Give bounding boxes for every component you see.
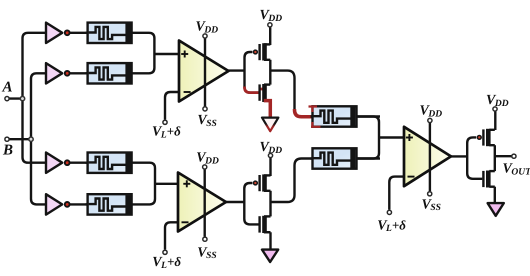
wire: op-amp U2 VDD/VSS rail [203,170,205,237]
ground stage 2 (pink) [262,250,278,262]
stage 3 VDD drop wire [494,112,496,131]
wire: op-amp U1 + input [154,53,180,55]
stage 1 NMOS source red wire [264,101,271,117]
svg-text:VL+δ: VL+δ [152,254,181,271]
ground stage 3 (pink) [488,203,504,216]
stage 2 CMOS gate bus [244,183,258,224]
terminal VDD U1 [203,34,207,38]
memristor M6 [311,148,357,168]
stage 1 VDD drop wire [269,27,271,45]
stage 2 VDD drop wire [269,158,271,176]
transistor Q2 NMOS stage 1 [260,84,271,102]
memristor M1 [86,23,132,43]
wire: op-amp U3 output [449,155,468,157]
wire: op-amp U1 - input to VL [165,92,180,120]
terminal VSS U2 [203,237,207,241]
stage 1 output wire to memristor M5 [270,71,294,110]
wire: top summing bus (mem1+mem2 outputs) [130,33,154,74]
ground stage 1 (red) [262,118,278,132]
inverter G1 [46,23,88,43]
stage 2 NMOS source wire [264,232,271,250]
terminal VOUT [512,154,516,158]
wire: bottom summing bus (mem3+mem4 outputs) [130,163,155,205]
terminal VDD U2 [203,165,207,169]
svg-text:VL+δ: VL+δ [377,217,406,234]
svg-text:A: A [1,80,12,96]
wire: op-amp U2 - input to VL [165,222,179,249]
wire: memristor M6 output [355,157,380,159]
svg-text:VL+δ: VL+δ [152,124,181,141]
terminal VDD stage2 [268,153,272,157]
transistor Q5 PMOS stage 3 [477,129,494,146]
stage 1 red gate highlight [245,87,267,93]
terminal VL U1 [163,120,167,124]
stage 3 NMOS source wire [494,187,496,204]
wire: input A lead [7,97,24,99]
memristor M2 [86,63,132,83]
svg-text:B: B [2,143,13,159]
transistor Q4 NMOS stage 2 [260,216,271,233]
wire: middle summing bus [356,117,379,159]
terminal VL U3 [387,210,391,214]
wire: op-amp U2 + input [155,183,180,185]
stage 2 output node rail [269,191,271,217]
stage 3 CMOS gate bus [467,137,482,178]
stage 1 output node rail [269,60,271,85]
stage 2 output wire to memristor M6 [271,159,314,203]
wire: op-amp U3 + input [379,136,405,138]
wire: VOUT lead [495,155,512,157]
terminal VDD U3 [428,118,432,122]
op-amp U2 [178,173,226,232]
inverter G2 [46,63,88,83]
terminal A [5,97,9,101]
memristor M3 [86,153,132,173]
transistor Q6 NMOS stage 3 [483,171,494,188]
node: junction A on bus1 [20,96,24,100]
op-amp U3 [404,127,451,186]
wire: op-amp U1 VDD/VSS rail [204,38,206,107]
memristor M4 [86,194,132,214]
op-amp U1 [179,41,229,102]
stage 1 CMOS gate bus [245,52,259,93]
wire: bus line 2 (signal B vertical) [31,73,46,204]
terminal VSS U3 [428,192,432,196]
terminal VDD stage3 [493,107,497,111]
transistor Q3 PMOS stage 2 [254,174,271,191]
wire: op-amp U1 output [226,69,246,71]
terminal VL U2 [163,250,167,254]
memristor M5 red corner marks [309,106,321,127]
wire red: stage1 out down to M5 [295,109,314,117]
wire: bus line 1 (signal A vertical) [23,33,47,163]
wire: memristor M5 output [355,115,380,117]
memristor M5 [311,106,357,126]
inverter G4 [46,194,88,214]
wire: op-amp U3 - input to VL [389,177,404,210]
wire: op-amp U2 output [224,201,245,203]
stage 3 output node rail [494,145,496,171]
node: junction B on bus2 [29,137,33,141]
transistor Q1 PMOS stage 1 [254,43,271,60]
terminal VDD stage1 [268,23,272,27]
wire: op-amp U3 VDD/VSS rail [429,123,431,191]
inverter G3 [46,153,88,173]
terminal B [5,137,9,141]
wire: input B lead [7,138,32,140]
terminal VSS U1 [203,107,207,111]
